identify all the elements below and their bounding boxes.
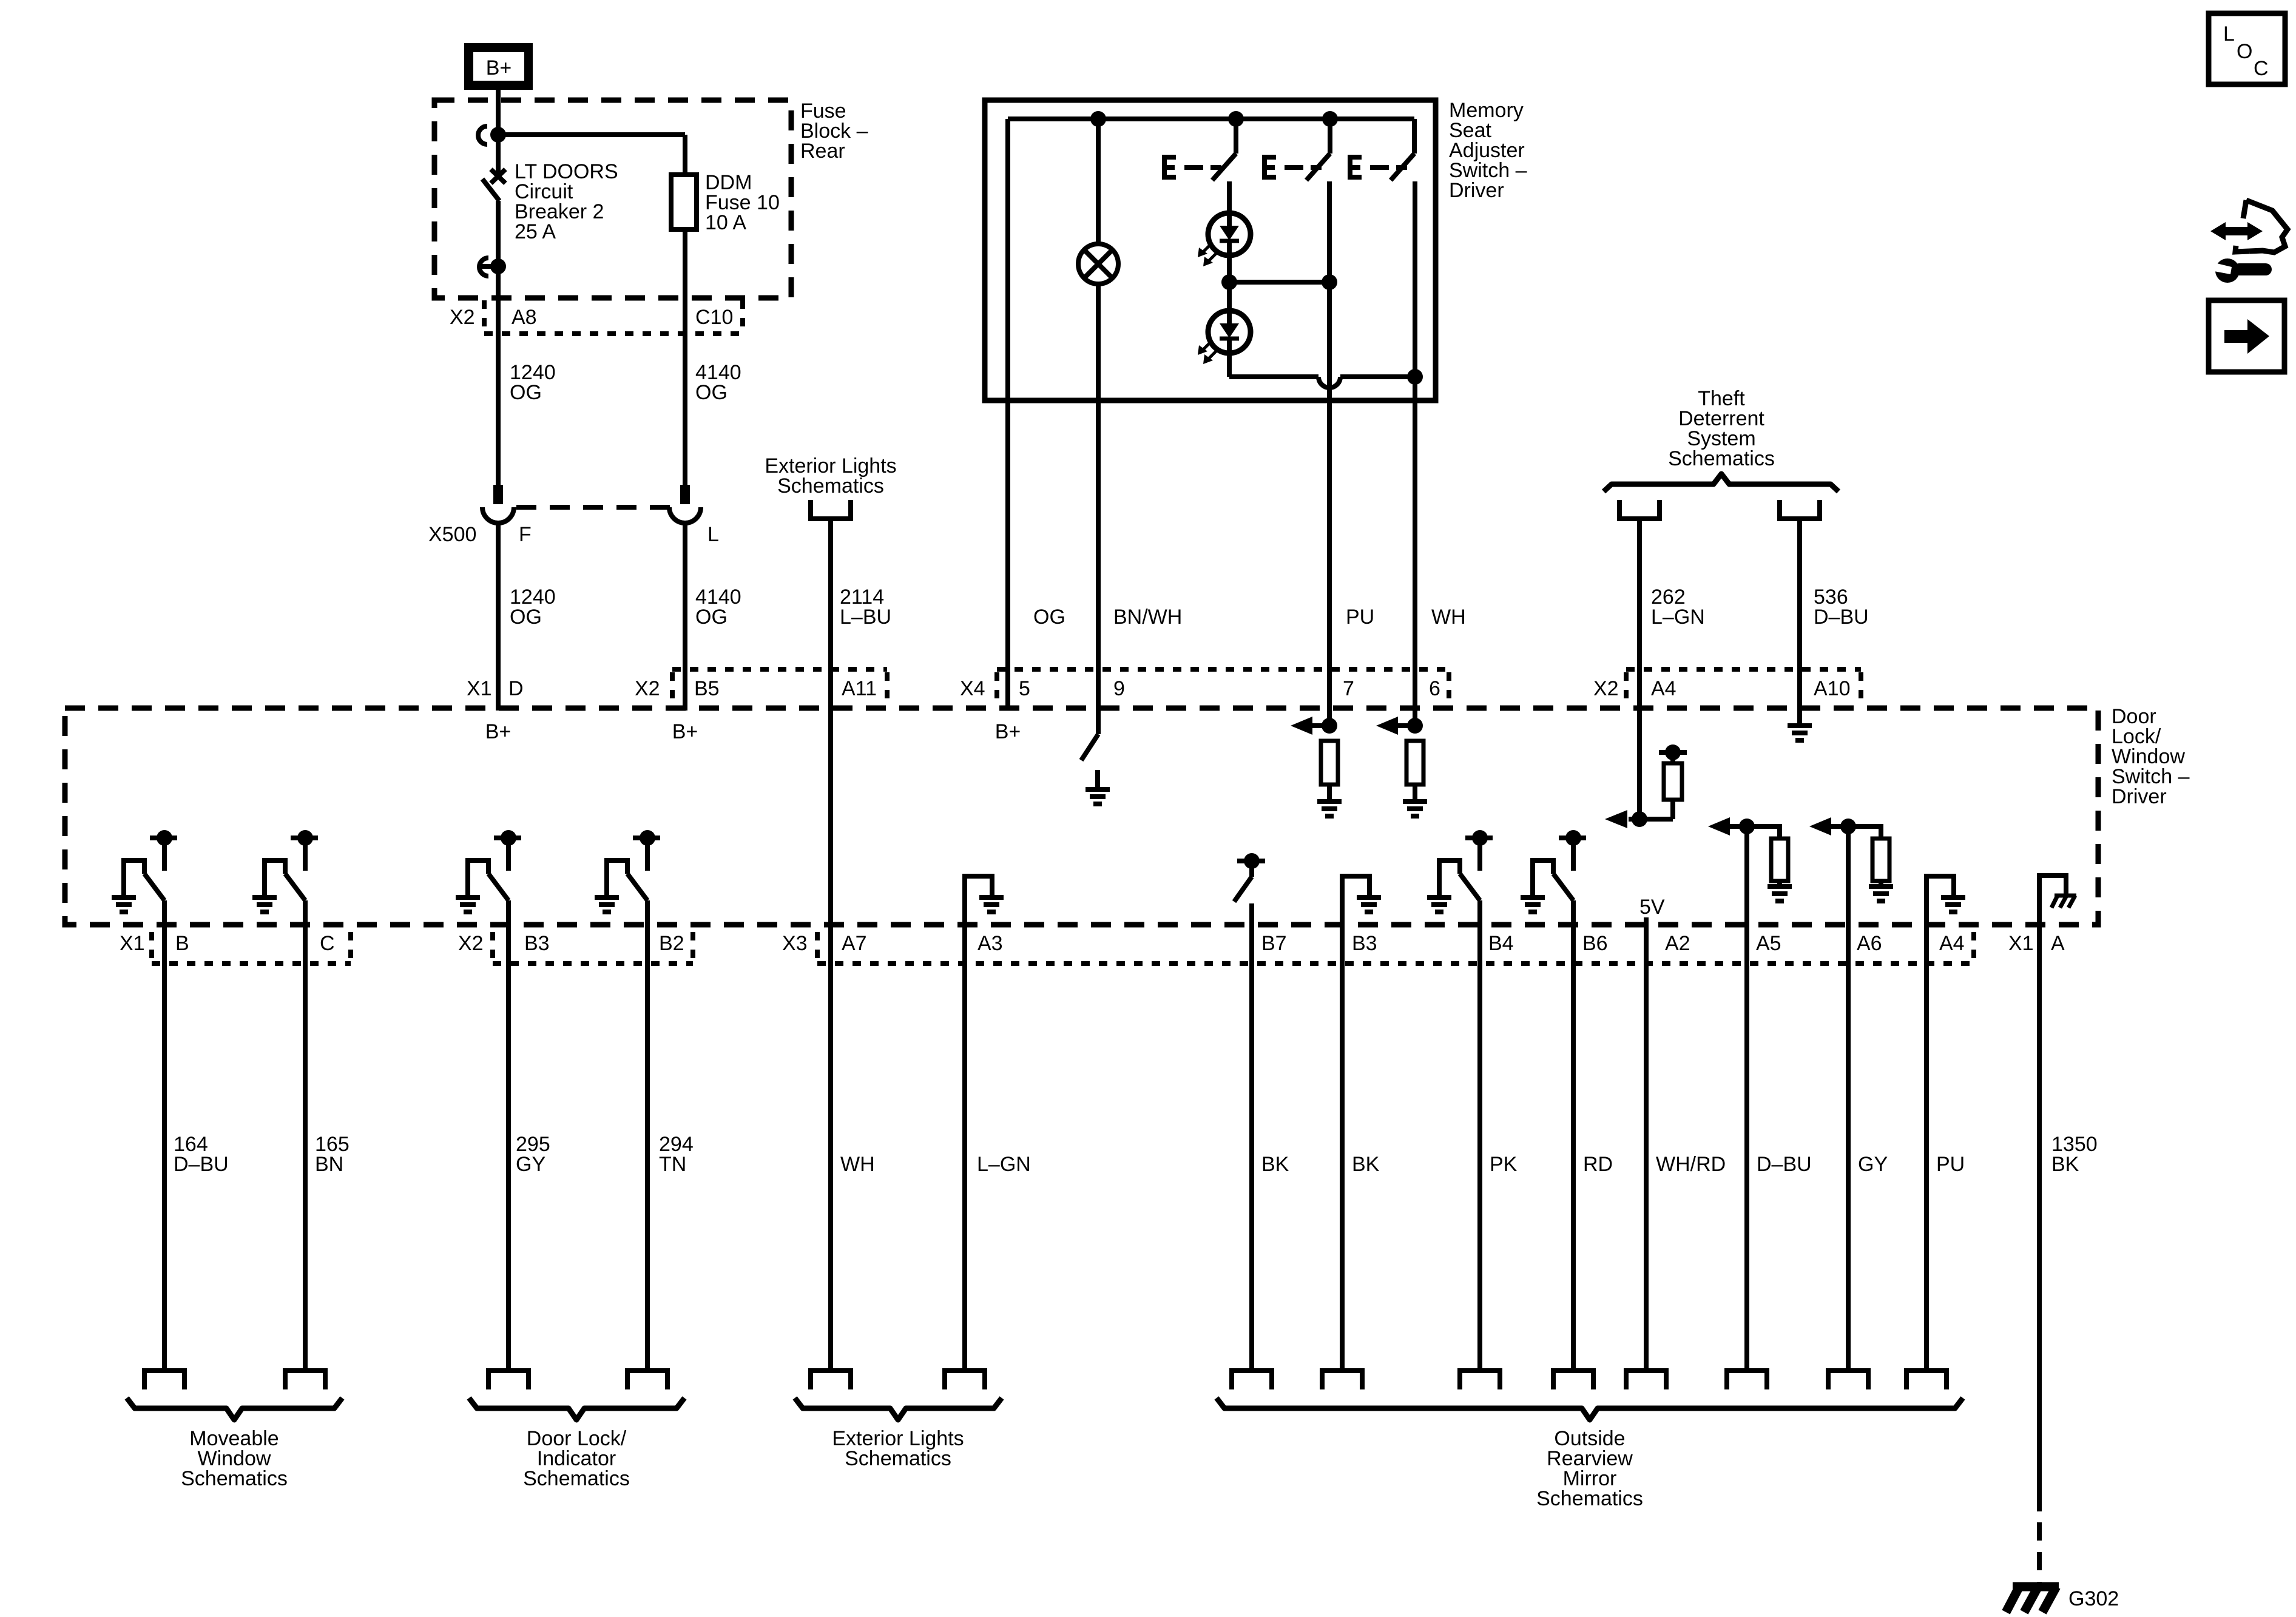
terminal 164 (144, 1371, 184, 1389)
svg-text:GY: GY (516, 1153, 545, 1176)
svg-text:B7: B7 (1261, 932, 1287, 955)
svg-text:OG: OG (510, 606, 542, 629)
terminal RD (1553, 1371, 1593, 1389)
svg-text:A7: A7 (842, 932, 867, 955)
svg-text:TN: TN (659, 1153, 686, 1176)
wire D-BU (1744, 826, 1749, 1368)
terminal 295 (488, 1371, 528, 1389)
svg-text:5: 5 (1019, 677, 1030, 700)
svg-text:A4: A4 (1651, 677, 1676, 700)
svg-text:6: 6 (1429, 677, 1440, 700)
svg-text:PK: PK (1490, 1153, 1518, 1176)
svg-text:A10: A10 (1814, 677, 1851, 700)
dotted pin box bottom A8-C10 (484, 331, 743, 336)
svg-text:D–BU: D–BU (1814, 606, 1869, 629)
ground dome switch (1086, 789, 1110, 804)
svg-text:PU: PU (1936, 1153, 1965, 1176)
wire 536 D-BU to pin A10 ground (1797, 518, 1802, 724)
wire 4140 OG to door switch X2-B5 (683, 523, 687, 711)
svg-text:B3: B3 (524, 932, 550, 955)
connector X500 pin L (680, 485, 690, 504)
wire 295 GY (506, 900, 511, 1368)
svg-text:25 A: 25 A (515, 220, 556, 243)
svg-text:Driver: Driver (2112, 785, 2167, 808)
window switch pin C (291, 836, 318, 840)
door lock switch pin B3 (494, 836, 521, 840)
svg-text:L–GN: L–GN (1651, 606, 1705, 629)
svg-text:B2: B2 (659, 932, 684, 955)
svg-text:L–GN: L–GN (977, 1153, 1031, 1176)
svg-text:WH: WH (1431, 606, 1466, 629)
wire 262 L-GN to pin A4 (1637, 518, 1642, 819)
svg-text:L–BU: L–BU (840, 606, 891, 629)
svg-text:BN: BN (315, 1153, 343, 1176)
switch 3 blade (1391, 154, 1414, 180)
svg-text:Schematics: Schematics (777, 474, 884, 498)
wire LED return (1229, 374, 1319, 379)
svg-text:X3: X3 (782, 932, 808, 955)
svg-text:B+: B+ (995, 720, 1021, 743)
off-page connector theft 536 (1780, 500, 1820, 519)
svg-text:B6: B6 (1582, 932, 1608, 955)
svg-text:X500: X500 (428, 523, 476, 546)
off-page connector theft 262 (1619, 500, 1660, 519)
svg-text:BK: BK (1352, 1153, 1380, 1176)
internal bus top line (1008, 116, 1414, 121)
fuse block - rear dashed box (434, 100, 791, 298)
junction LED link right (1322, 274, 1337, 290)
switch 1 memory (1164, 155, 1176, 180)
svg-text:9: 9 (1113, 677, 1125, 700)
wire B+ to circuit breaker (496, 90, 501, 131)
svg-text:X1: X1 (120, 932, 145, 955)
window switch pin B (150, 836, 177, 840)
switch blade BN/WH (1081, 734, 1098, 760)
wire WH/RD (1644, 917, 1649, 1368)
terminal WH/RD (1626, 1371, 1666, 1389)
svg-text:A5: A5 (1756, 932, 1781, 955)
svg-text:F: F (519, 523, 532, 546)
wire 165 BN (303, 900, 308, 1368)
resistor + signal arrow pin A6 (1840, 819, 1856, 834)
svg-text:Schematics: Schematics (1536, 1487, 1643, 1510)
wire internal B+ feed to pin 5 (1005, 119, 1010, 711)
svg-text:A4: A4 (1939, 932, 1965, 955)
svg-text:WH: WH (840, 1153, 875, 1176)
breaker blade (482, 179, 499, 201)
brace door lock/indicator (469, 1398, 684, 1420)
dotted pin box B-C (152, 961, 351, 966)
brace moveable window (127, 1398, 342, 1420)
svg-text:B+: B+ (485, 720, 512, 743)
svg-text:GY: GY (1858, 1153, 1888, 1176)
junction resistor top node (1665, 744, 1681, 760)
svg-text:A: A (2051, 932, 2065, 955)
fuse DDM Fuse 10 10A (683, 135, 687, 175)
svg-text:7: 7 (1343, 677, 1354, 700)
door lock/window switch - driver dashed box (65, 708, 2098, 925)
off-page connector exterior lights (811, 500, 851, 519)
junction lamp feed (1090, 111, 1106, 127)
svg-text:BN/WH: BN/WH (1113, 606, 1182, 629)
internal chassis ground pin A (2039, 876, 2066, 925)
LED indicator 2 (1208, 311, 1251, 353)
wire to DDM fuse (498, 132, 685, 137)
wire RD (1571, 900, 1576, 1368)
internal ground pin A3 (965, 876, 992, 925)
connector X500 pin F (493, 485, 503, 504)
wire switch2 to pin 7 (1327, 181, 1332, 726)
circuit breaker CB2 terminal curl top (478, 126, 487, 144)
wire GY (1846, 826, 1851, 1368)
svg-text:C10: C10 (695, 306, 733, 329)
dotted pin box B5-A11 (672, 667, 887, 672)
wire breaker to X500 pin F (496, 266, 501, 486)
svg-text:O: O (2237, 40, 2252, 63)
terminal WH (811, 1371, 851, 1389)
svg-text:A6: A6 (1857, 932, 1882, 955)
circuit breaker terminal curl bottom (479, 258, 488, 276)
switch 2 memory (1264, 155, 1276, 180)
svg-text:D–BU: D–BU (1757, 1153, 1812, 1176)
svg-text:A11: A11 (842, 677, 877, 700)
svg-text:5V: 5V (1639, 896, 1665, 919)
terminal PK (1460, 1371, 1500, 1389)
terminal L-GN (945, 1371, 985, 1389)
dotted pin box 5-6 (997, 667, 1449, 672)
svg-text:PU: PU (1346, 606, 1374, 629)
svg-text:D: D (508, 677, 524, 700)
mirror switch pin B4 (1465, 836, 1493, 840)
svg-text:X2: X2 (458, 932, 484, 955)
pushbutton blade B7 (1234, 877, 1252, 902)
svg-text:L: L (707, 523, 719, 546)
brace theft deterrent (1604, 474, 1838, 491)
brace exterior lights (795, 1398, 1002, 1420)
terminal GY (1828, 1371, 1868, 1389)
junction theft branch (1632, 811, 1647, 827)
wire BK pin B3 (1340, 876, 1345, 1368)
junction breaker bottom (490, 258, 506, 274)
svg-text:C: C (320, 932, 335, 955)
svg-text:X1: X1 (467, 677, 492, 700)
svg-text:Schematics: Schematics (1668, 447, 1775, 470)
terminal 294 (627, 1371, 667, 1389)
wire lamp to pin 9 and switch (1096, 284, 1101, 734)
svg-text:X2: X2 (1593, 677, 1619, 700)
svg-text:OG: OG (695, 606, 728, 629)
svg-text:Schematics: Schematics (181, 1467, 288, 1490)
svg-text:10 A: 10 A (705, 211, 746, 234)
wire L-GN (962, 876, 967, 1368)
svg-text:X2: X2 (450, 306, 475, 329)
X500 connector dashed link (516, 505, 670, 510)
svg-text:B+: B+ (486, 56, 512, 79)
dotted pin box A4-A10 (1626, 667, 1861, 672)
svg-text:B3: B3 (1352, 932, 1377, 955)
internal ground pin A4 (1926, 876, 1954, 925)
svg-text:X1: X1 (2008, 932, 2034, 955)
wire BK pin B7 (1249, 903, 1254, 1368)
svg-text:RD: RD (1583, 1153, 1613, 1176)
wire PK (1477, 900, 1482, 1368)
svg-text:WH/RD: WH/RD (1656, 1153, 1726, 1176)
svg-text:A2: A2 (1665, 932, 1690, 955)
wire LED1 to LED2 (1227, 255, 1232, 311)
resistor + signal arrow pin A5 (1739, 819, 1755, 834)
svg-text:Driver: Driver (1449, 179, 1504, 202)
internal ground pin B3 mirror (1342, 876, 1369, 925)
svg-text:B5: B5 (694, 677, 720, 700)
switch 2 blade (1306, 154, 1330, 180)
memory seat adjuster switch - driver box (985, 100, 1436, 400)
wire LED junction link (1229, 280, 1329, 285)
wire to illumination lamp (1096, 119, 1101, 244)
door lock switch pin B2 (633, 836, 660, 840)
switch 1 blade (1212, 154, 1236, 180)
terminal D-BU (1727, 1371, 1767, 1389)
wire 164 D-BU (162, 900, 167, 1368)
junction LED link left (1221, 274, 1237, 290)
svg-text:OG: OG (695, 381, 728, 404)
dotted pin box A7-A4 (817, 961, 1974, 966)
wire 1350 BK to G302 (2037, 876, 2042, 1511)
switch 3 memory (1350, 155, 1362, 180)
dotted pin box B3-B2 (493, 961, 693, 966)
svg-text:OG: OG (1033, 606, 1065, 629)
svg-text:Schematics: Schematics (523, 1467, 630, 1490)
svg-text:OG: OG (510, 381, 542, 404)
LED indicator 1 (1208, 213, 1251, 255)
svg-text:X4: X4 (960, 677, 985, 700)
svg-text:L: L (2223, 22, 2235, 46)
wire switch3 to pin 6 (1413, 181, 1417, 726)
svg-text:Rear: Rear (800, 140, 845, 163)
junction breaker top (490, 127, 506, 143)
mirror switch pin B6 (1559, 836, 1586, 840)
svg-text:B+: B+ (672, 720, 698, 743)
junction LED return to switch3 wire (1407, 369, 1423, 385)
lamp illumination (1078, 244, 1118, 284)
terminal PU (1906, 1371, 1947, 1389)
wire hop over switch2 wire (1319, 377, 1340, 388)
icon forward arrow box (2209, 300, 2284, 372)
svg-text:A3: A3 (977, 932, 1003, 955)
wire PU (1924, 876, 1929, 1368)
resistor + signal arrow pin 7 (1322, 718, 1337, 734)
brace outside rearview mirror (1217, 1398, 1963, 1420)
wire 2114 L-BU / WH through A11 and A7 (828, 518, 833, 1368)
resistor + signal arrow pin 6 (1407, 718, 1423, 734)
ground G302 (2006, 1587, 2059, 1612)
wire switch1 to LED1 (1227, 181, 1232, 213)
svg-text:C: C (2254, 57, 2269, 80)
wire breaker to lower terminal (496, 201, 501, 266)
svg-text:B4: B4 (1488, 932, 1514, 955)
icon repair instructions (part + arrow + wrench) (2243, 200, 2246, 218)
svg-text:BK: BK (2051, 1153, 2079, 1176)
icon LOC box (2209, 13, 2285, 84)
terminal BK B7 (1232, 1371, 1272, 1389)
svg-text:BK: BK (1261, 1153, 1289, 1176)
wire 294 TN (645, 900, 650, 1368)
svg-text:G302: G302 (2068, 1587, 2119, 1610)
wire 1240 OG to door switch X1-D (496, 523, 501, 711)
svg-text:Schematics: Schematics (845, 1447, 951, 1470)
svg-text:A8: A8 (512, 306, 537, 329)
wire dashed to G302 (2037, 1522, 2042, 1587)
terminal BK B3 (1322, 1371, 1362, 1389)
svg-text:D–BU: D–BU (174, 1153, 229, 1176)
battery feed B+ box (464, 43, 533, 90)
pushbutton switch pin B7 (1237, 859, 1265, 863)
terminal 165 (285, 1371, 325, 1389)
chassis ground internal (2051, 896, 2076, 908)
wire fuse to X500 pin L (683, 229, 687, 486)
svg-text:B: B (175, 932, 189, 955)
circuit breaker element X (491, 169, 505, 183)
ground pin A10 (1788, 726, 1812, 740)
svg-text:X2: X2 (635, 677, 660, 700)
